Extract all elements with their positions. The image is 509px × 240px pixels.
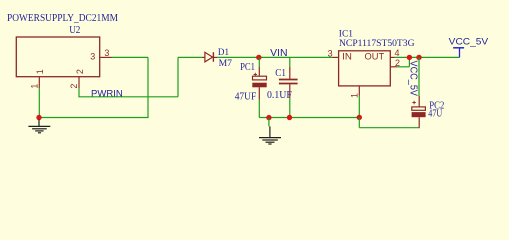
wire diode to IC pin3 [217,56,332,58]
svg-text:47U: 47U [428,109,443,120]
svg-text:4: 4 [395,48,400,58]
svg-text:IC1: IC1 [339,30,353,40]
U2 pin 2 stub [78,77,80,88]
svg-text:OUT: OUT [365,52,385,62]
junction dot U2 pin1/ground [36,115,41,120]
junction dot pin2/rail [407,55,412,60]
svg-text:47UF: 47UF [235,92,257,103]
svg-text:IN: IN [342,52,352,62]
svg-text:1: 1 [29,84,39,89]
svg-text:3: 3 [104,48,109,58]
wire pin3 to corner [112,56,149,58]
regulator IC1 body [339,51,391,86]
wire IC pin1 down [358,96,360,118]
wire to diode anode [178,56,202,58]
svg-text:U2: U2 [69,24,80,36]
svg-text:D1: D1 [218,48,229,58]
svg-text:VCC_5V: VCC_5V [449,37,489,48]
svg-text:C1: C1 [275,68,286,79]
IC1 pin 3 stub [332,56,338,58]
U2 pin 3 stub [100,56,112,58]
capacitor PC1 bottom plate [252,83,266,88]
ground symbol left [28,120,50,133]
PC1 bottom lead [258,87,260,99]
sheet background [0,0,509,153]
svg-text:3: 3 [328,48,333,58]
svg-text:NCP1117ST50T3G: NCP1117ST50T3G [339,39,415,49]
svg-text:1: 1 [35,69,45,74]
svg-text:M7: M7 [219,59,233,69]
IC1 pin 1 stub [358,86,360,96]
ground symbol middle [259,126,281,144]
wire bottom jog down [358,117,360,127]
capacitor C1 top plate [279,79,298,81]
U2 pin 1 stub [38,77,40,88]
connector U2 body [16,37,99,77]
svg-text:1: 1 [349,93,359,98]
wire U2 pin2 down [78,88,80,97]
capacitor PC2 bottom plate [412,112,426,117]
svg-text:2: 2 [75,69,85,74]
IC1 pin 2 stub [390,66,397,68]
svg-text:VIN: VIN [270,48,287,59]
wire bottom middle rail [259,117,359,119]
diode D1 lead right [213,56,217,58]
svg-text:0.1UF: 0.1UF [267,90,292,101]
IC1 pin 4 stub [390,56,395,58]
C1 top lead [289,57,291,67]
wire IC pin2 right [397,66,409,68]
junction dot ground middle [266,115,271,120]
diode D1 triangle [205,52,213,62]
capacitor C1 bottom plate [279,83,298,85]
power port VCC_5V stem [459,48,461,58]
wire IC pin4 to VCC [395,56,460,58]
PC1 plus mark [254,73,257,76]
svg-text:PWRIN: PWRIN [91,88,123,99]
svg-text:VCC_5V: VCC_5V [408,61,419,97]
wire vertical x178 up [177,57,179,96]
junction dot PC2/rail [416,55,421,60]
wire ground line left [39,117,149,119]
diode D1 cathode bar [212,52,214,62]
PC2 bottom lead [418,117,420,128]
svg-text:PC1: PC1 [240,62,255,73]
svg-text:3: 3 [90,52,95,62]
junction dot PC1 top [256,55,261,60]
wire U2 pin1 down [38,88,40,118]
junction dot C1 bottom [287,115,292,120]
C1 bottom lead [289,84,291,98]
power port VCC_5V bar [453,47,464,49]
svg-text:2: 2 [69,84,79,89]
wire PC2 top vertical [418,57,420,96]
svg-text:POWERSUPPLY_DC21MM: POWERSUPPLY_DC21MM [7,13,118,24]
capacitor PC1 top plate [253,76,267,80]
PC2 plus mark [412,101,415,104]
wire IC pin2 up [408,57,410,66]
wire bottom jog right [359,127,419,129]
diode D1 lead left [202,56,205,58]
capacitor PC2 top plate [412,107,426,110]
wire vertical x148 down to ground line [147,57,149,117]
wire PWRIN horizontal [78,96,178,98]
ground stem middle [268,118,270,127]
PC1 top lead [258,57,260,67]
junction dot IC pin1/rail [357,115,362,120]
